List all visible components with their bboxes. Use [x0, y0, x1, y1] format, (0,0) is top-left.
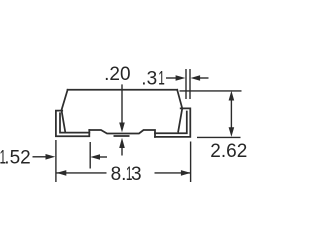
- extension line B lead end: [89, 142, 91, 169]
- arrowhead .20 up: [119, 138, 125, 148]
- arrowhead 1.52 pointing left: [90, 154, 100, 160]
- arrowhead 1.52 pointing right: [46, 154, 56, 160]
- arrowhead .20 down: [119, 123, 125, 133]
- lead L2 inner bend: [155, 112, 187, 134]
- dim 2.62 vertical line: [230, 99, 232, 129]
- dim .31 right arrow tail: [200, 77, 209, 79]
- lead L1 inner bend: [60, 113, 89, 132]
- dim .20 lower arrow tail: [121, 146, 123, 156]
- dim 8.13 line left segment: [56, 172, 106, 174]
- lead L1 left terminal: [56, 111, 89, 137]
- svg-text:.3: .3: [141, 68, 157, 89]
- dim 2.62 top extension line: [180, 90, 242, 92]
- body left side: [62, 111, 66, 133]
- body left bevel: [61, 90, 67, 111]
- dim 1.52 left arrow tail: [33, 156, 47, 158]
- body top edge: [68, 89, 178, 91]
- dim 2.62 bottom extension line: [197, 136, 241, 138]
- dim .31 extension line left: [185, 69, 187, 99]
- arrowhead 2.62 down: [229, 127, 235, 137]
- lead L2 right terminal: [155, 108, 190, 136]
- svg-text:3: 3: [131, 164, 142, 185]
- extension line C right of package: [190, 142, 192, 183]
- svg-text:2.62: 2.62: [210, 141, 247, 162]
- dim .31 extension line right: [189, 69, 191, 99]
- body right bevel: [177, 90, 182, 109]
- dim .31 left arrow tail: [166, 77, 176, 79]
- arrowhead 2.62 up: [229, 91, 235, 101]
- svg-text:.20: .20: [104, 64, 130, 85]
- dim 1.52 right arrow tail: [99, 156, 107, 158]
- dim .20 leader line down: [121, 84, 123, 124]
- dim 8.13 line right segment: [155, 172, 191, 174]
- svg-text:.52: .52: [4, 147, 30, 168]
- body right side: [178, 109, 182, 131]
- arrowhead 8.13 pointing left: [57, 170, 67, 176]
- arrowhead .31 pointing left: [191, 75, 201, 81]
- extension line A left of package: [55, 140, 57, 182]
- svg-text:8.: 8.: [111, 164, 127, 185]
- body bottom left shoulder: [89, 130, 155, 137]
- svg-text:1: 1: [158, 69, 165, 89]
- arrowhead .31 pointing right: [176, 75, 186, 81]
- arrowhead 8.13 pointing right: [181, 170, 191, 176]
- seating plane line: [114, 135, 130, 137]
